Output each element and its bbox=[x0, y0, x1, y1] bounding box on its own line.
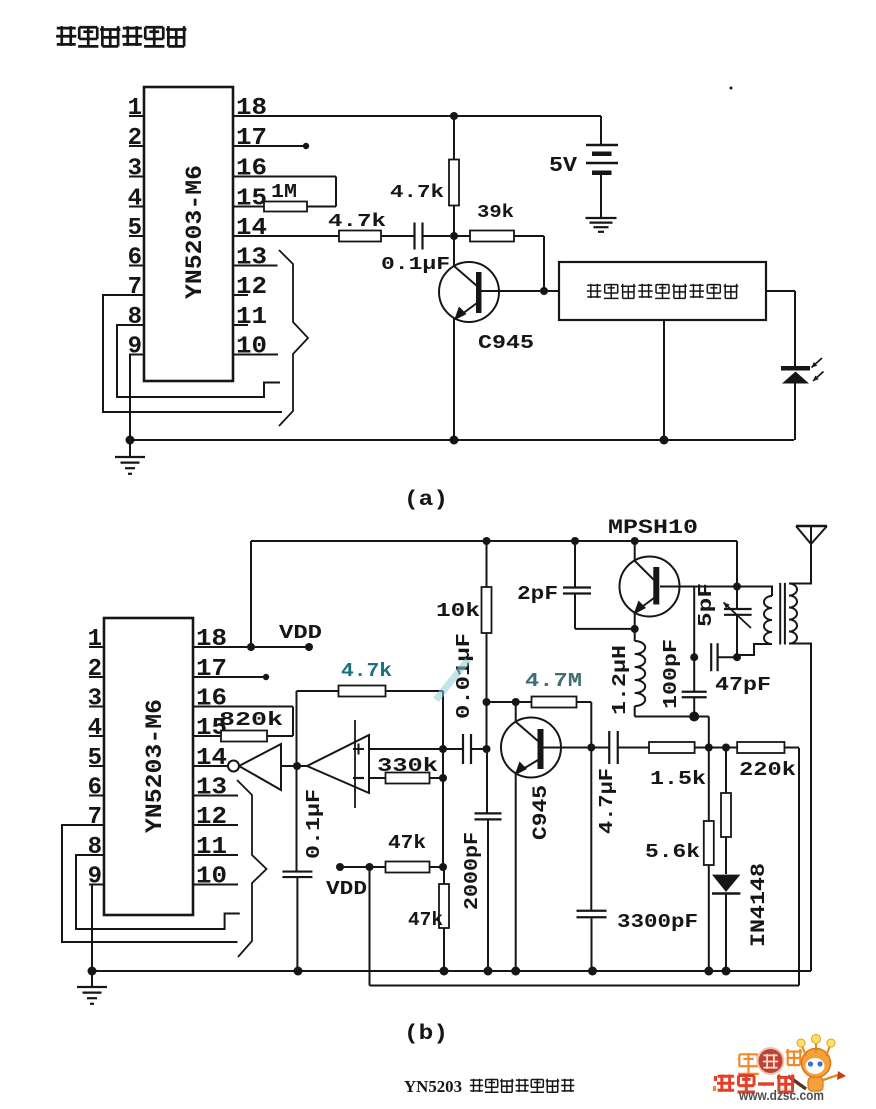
svg-text:5pF: 5pF bbox=[695, 583, 717, 627]
svg-text:8: 8 bbox=[128, 304, 142, 331]
svg-text:2pF: 2pF bbox=[517, 583, 558, 605]
svg-text:5V: 5V bbox=[549, 155, 577, 178]
svg-text:0.1μF: 0.1μF bbox=[381, 255, 450, 275]
svg-text:18: 18 bbox=[236, 95, 267, 122]
svg-text:47pF: 47pF bbox=[715, 674, 771, 696]
svg-text:5.6k: 5.6k bbox=[645, 841, 700, 863]
svg-text:IN4148: IN4148 bbox=[748, 863, 771, 947]
svg-text:18: 18 bbox=[196, 626, 227, 653]
svg-text:4.7k: 4.7k bbox=[390, 183, 444, 203]
svg-text:16: 16 bbox=[236, 156, 267, 183]
svg-text:9: 9 bbox=[88, 864, 102, 891]
svg-text:3: 3 bbox=[128, 156, 142, 183]
svg-text:11: 11 bbox=[196, 834, 227, 861]
svg-text:VDD: VDD bbox=[326, 878, 367, 900]
svg-text:47k: 47k bbox=[408, 909, 443, 931]
svg-text:1: 1 bbox=[128, 95, 142, 122]
svg-text:8: 8 bbox=[88, 834, 102, 861]
svg-text:7: 7 bbox=[88, 804, 102, 831]
svg-text:4.7k: 4.7k bbox=[328, 212, 386, 232]
svg-text:820k: 820k bbox=[219, 709, 283, 731]
svg-text:330k: 330k bbox=[377, 755, 438, 777]
svg-text:1M: 1M bbox=[271, 181, 297, 203]
svg-text:11: 11 bbox=[236, 304, 267, 331]
svg-text:4.7μF: 4.7μF bbox=[596, 768, 618, 834]
svg-text:1.5k: 1.5k bbox=[650, 768, 706, 790]
svg-text:12: 12 bbox=[196, 804, 227, 831]
svg-text:100pF: 100pF bbox=[660, 639, 682, 709]
svg-text:220k: 220k bbox=[739, 759, 796, 781]
svg-text:2: 2 bbox=[88, 656, 102, 683]
svg-text:3: 3 bbox=[88, 686, 102, 713]
svg-text:(b): (b) bbox=[404, 1023, 448, 1046]
svg-text:14: 14 bbox=[236, 215, 267, 242]
svg-text:13: 13 bbox=[196, 775, 227, 802]
svg-text:C945: C945 bbox=[478, 332, 534, 354]
svg-text:0.1μF: 0.1μF bbox=[303, 789, 325, 859]
svg-text:MPSH10: MPSH10 bbox=[608, 517, 698, 540]
svg-text:YN5203-M6: YN5203-M6 bbox=[142, 699, 168, 833]
svg-text:YN5203: YN5203 bbox=[404, 1077, 462, 1096]
svg-text:15: 15 bbox=[236, 186, 267, 213]
svg-text:5: 5 bbox=[128, 215, 142, 242]
svg-text:47k: 47k bbox=[388, 832, 426, 854]
svg-text:13: 13 bbox=[236, 245, 267, 272]
svg-text:17: 17 bbox=[196, 656, 227, 683]
svg-text:3300pF: 3300pF bbox=[617, 911, 698, 933]
svg-text:2000pF: 2000pF bbox=[461, 832, 483, 910]
svg-text:1: 1 bbox=[88, 626, 102, 653]
svg-text:6: 6 bbox=[88, 775, 102, 802]
svg-text:10k: 10k bbox=[436, 600, 480, 622]
svg-text:6: 6 bbox=[128, 245, 142, 272]
svg-text:10: 10 bbox=[236, 334, 267, 361]
svg-text:4.7k: 4.7k bbox=[341, 660, 392, 682]
svg-text:1.2μH: 1.2μH bbox=[609, 645, 631, 715]
svg-text:C945: C945 bbox=[530, 785, 553, 840]
svg-text:12: 12 bbox=[236, 274, 267, 301]
svg-text:4: 4 bbox=[88, 715, 102, 742]
svg-text:7: 7 bbox=[128, 274, 142, 301]
svg-text:VDD: VDD bbox=[279, 622, 322, 644]
svg-text:14: 14 bbox=[196, 745, 227, 772]
svg-text:2: 2 bbox=[128, 125, 142, 152]
svg-text:(a): (a) bbox=[404, 489, 448, 512]
svg-text:10: 10 bbox=[196, 864, 227, 891]
svg-text:5: 5 bbox=[88, 745, 102, 772]
svg-text:4.7M: 4.7M bbox=[525, 670, 582, 692]
svg-text:17: 17 bbox=[236, 125, 267, 152]
svg-text:4: 4 bbox=[128, 186, 142, 213]
svg-text:www.dzsc.com: www.dzsc.com bbox=[738, 1088, 824, 1103]
svg-text:39k: 39k bbox=[477, 203, 514, 223]
svg-text:YN5203-M6: YN5203-M6 bbox=[182, 165, 208, 299]
